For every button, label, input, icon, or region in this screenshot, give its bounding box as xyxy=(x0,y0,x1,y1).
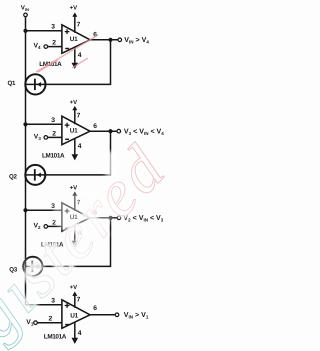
svg-text:VIN > V1: VIN > V1 xyxy=(124,311,149,320)
Q3 emitter arrow xyxy=(34,264,38,269)
U2 plus input mark xyxy=(65,123,70,128)
junction U3 output node xyxy=(108,216,112,220)
Q2 emitter arrow xyxy=(37,173,41,178)
svg-text:LM101A: LM101A xyxy=(44,334,67,341)
wire U4 pin 2 from V1 terminal xyxy=(37,322,62,324)
U1 pin 4 lead to -V arrow xyxy=(74,47,76,63)
svg-text:Q2: Q2 xyxy=(9,174,18,181)
svg-text:LM101A: LM101A xyxy=(42,153,65,160)
transistor Q1 xyxy=(25,74,45,94)
svg-text:Q3: Q3 xyxy=(9,266,18,273)
terminal V1 input xyxy=(34,321,38,325)
output terminal stage 3 xyxy=(117,216,121,220)
node/junction VIN bus to U1 pin 3 xyxy=(23,29,27,33)
svg-text:+V: +V xyxy=(70,5,78,12)
Q3 base lead from VIN bus xyxy=(26,265,33,267)
U4 pin 7 lead to +V arrow xyxy=(74,294,76,308)
transistor Q3 xyxy=(23,257,42,276)
svg-text:2: 2 xyxy=(49,316,53,323)
svg-text:U1: U1 xyxy=(70,36,78,43)
negative supply arrow (-V) U2 xyxy=(72,154,79,160)
svg-text:Q1: Q1 xyxy=(8,80,17,87)
U2 minus input mark xyxy=(65,138,69,140)
op-amp U1 LM101A triangle xyxy=(62,25,90,54)
negative supply arrow (-V) U1 xyxy=(72,63,79,69)
wire U1 pin 2 from V4 terminal xyxy=(48,46,62,48)
input terminal VIN xyxy=(24,13,28,17)
junction U2 output node xyxy=(108,129,112,133)
op-amp U2 LM101A triangle xyxy=(62,116,90,145)
U2 pin 7 lead to +V arrow xyxy=(74,109,76,125)
svg-text:U1: U1 xyxy=(70,127,78,134)
U2 pin 4 lead to -V arrow xyxy=(74,138,76,154)
terminal V2 input xyxy=(44,225,48,229)
svg-text:2: 2 xyxy=(52,130,56,137)
watermark pink strokes (decorative) xyxy=(36,35,98,72)
watermark Registered (decorative) xyxy=(0,130,181,351)
wire feedback U1 output to Q1 xyxy=(35,40,111,85)
U3 pin 4 lead to -V arrow xyxy=(74,225,76,241)
wire feedback U3 output to Q3 xyxy=(32,218,111,267)
output terminal stage 4 xyxy=(115,313,119,317)
U4 minus input mark xyxy=(65,324,69,326)
svg-text:4: 4 xyxy=(78,330,82,337)
wire U3 pin 2 from V2 terminal xyxy=(48,225,62,227)
U1 pin 7 lead to +V arrow xyxy=(74,15,76,33)
wire U4 output pin 6 xyxy=(90,314,115,316)
svg-text:U1: U1 xyxy=(70,313,78,320)
svg-text:6: 6 xyxy=(93,123,97,130)
node/junction VIN bus to U2 pin 3 xyxy=(23,122,27,126)
svg-text:4: 4 xyxy=(78,52,82,59)
wire U1 output pin 6 xyxy=(90,39,118,41)
wire U3 output pin 6 xyxy=(90,217,117,219)
terminal V3 input xyxy=(44,136,48,140)
negative supply arrow (-V) U4 xyxy=(72,338,79,344)
U3 minus input mark xyxy=(65,227,69,229)
negative supply arrow (-V) U3 xyxy=(72,241,79,247)
wire U1 pin 3 from bus xyxy=(26,30,62,32)
output terminal stage 1 xyxy=(118,38,122,42)
U4 pin 4 lead to -V arrow xyxy=(74,322,76,338)
svg-text:3: 3 xyxy=(51,24,55,31)
U3 plus input mark xyxy=(65,209,70,214)
wire U3 pin 3 from bus xyxy=(26,209,62,211)
svg-text:7: 7 xyxy=(77,21,81,28)
output terminal stage 2 xyxy=(117,129,121,133)
node/junction VIN bus to U3 pin 3 xyxy=(23,208,27,212)
svg-text:7: 7 xyxy=(77,296,81,303)
Q1 base lead from VIN bus xyxy=(26,83,35,85)
wire U2 pin 2 from V3 terminal xyxy=(48,136,62,138)
terminal V4 input xyxy=(44,45,48,49)
junction U1 output node xyxy=(108,38,112,42)
U4 plus input mark xyxy=(65,303,70,308)
svg-text:+V: +V xyxy=(70,99,78,106)
wire feedback U2 output to Q2 xyxy=(34,131,110,175)
Q2 base lead from VIN bus xyxy=(26,174,35,176)
Q1 emitter arrow xyxy=(37,82,41,87)
wire U2 pin 3 from bus xyxy=(26,123,62,125)
wire U2 output pin 6 xyxy=(90,130,117,132)
U1 minus input mark xyxy=(65,48,69,50)
svg-text:2: 2 xyxy=(52,40,56,47)
U3 pin 7 lead to +V arrow xyxy=(74,194,76,211)
svg-text:VIN > V4: VIN > V4 xyxy=(124,36,149,45)
svg-text:6: 6 xyxy=(93,305,97,312)
svg-text:7: 7 xyxy=(77,113,81,120)
wire VIN bus (input rail down left side, feeds pin 3 of U4) xyxy=(26,17,62,305)
op-amp U3 LM101A triangle xyxy=(62,203,90,232)
op-amp U4 LM101A triangle xyxy=(62,300,90,329)
svg-text:3: 3 xyxy=(51,117,55,124)
svg-text:4: 4 xyxy=(78,143,82,150)
U1 plus input mark xyxy=(65,29,70,34)
transistor Q2 xyxy=(25,165,45,185)
